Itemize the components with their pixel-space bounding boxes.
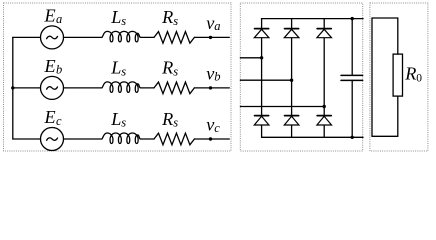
svg-text:s: s — [173, 64, 178, 78]
svg-text:L: L — [110, 7, 121, 27]
svg-text:L: L — [110, 58, 121, 78]
svg-text:a: a — [214, 19, 220, 33]
svg-text:s: s — [121, 64, 126, 78]
svg-text:R: R — [161, 58, 173, 78]
svg-text:s: s — [121, 115, 126, 129]
svg-text:s: s — [121, 14, 126, 28]
svg-text:c: c — [56, 114, 62, 128]
svg-text:R: R — [161, 109, 173, 129]
svg-text:b: b — [56, 63, 62, 77]
svg-text:s: s — [173, 115, 178, 129]
svg-text:c: c — [214, 121, 220, 135]
svg-text:E: E — [44, 56, 56, 76]
svg-text:L: L — [110, 109, 121, 129]
svg-text:R: R — [404, 64, 416, 84]
svg-text:a: a — [56, 12, 62, 26]
svg-text:E: E — [44, 6, 56, 26]
svg-text:0: 0 — [416, 73, 422, 85]
svg-text:E: E — [44, 107, 56, 127]
svg-text:s: s — [173, 14, 178, 28]
svg-text:b: b — [214, 70, 220, 84]
svg-text:R: R — [161, 7, 173, 27]
